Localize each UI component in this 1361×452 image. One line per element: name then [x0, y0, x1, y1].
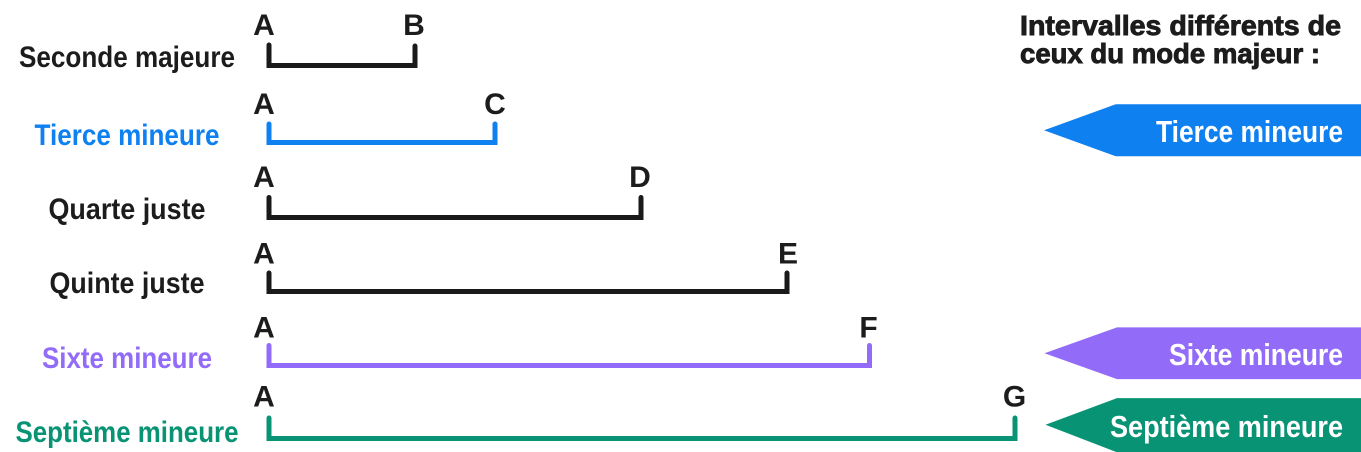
svg-text:Septième mineure: Septième mineure: [1110, 409, 1343, 444]
svg-text:E: E: [778, 238, 798, 271]
svg-text:Sixte mineure: Sixte mineure: [42, 342, 212, 375]
banner arrow Tierce mineure blue: [1044, 104, 1361, 156]
bracket A-E black: [269, 273, 787, 292]
note letter B row1: [403, 9, 425, 42]
svg-text:Septième mineure: Septième mineure: [16, 416, 239, 449]
svg-text:A: A: [253, 238, 275, 271]
svg-text:Quinte juste: Quinte juste: [50, 267, 205, 300]
svg-text:Tierce mineure: Tierce mineure: [35, 119, 220, 152]
note letter A row1: [253, 9, 275, 42]
banner arrow Sixte mineure purple: [1045, 327, 1361, 379]
note letter D row3: [629, 161, 651, 194]
bracket A-F purple: [269, 346, 870, 366]
row label Sixte mineure: [42, 342, 212, 375]
svg-text:Sixte mineure: Sixte mineure: [1169, 337, 1343, 372]
svg-text:B: B: [403, 9, 425, 42]
svg-text:Quarte juste: Quarte juste: [49, 193, 206, 226]
svg-text:A: A: [253, 381, 275, 414]
banner arrow Septième mineure green: [1046, 398, 1361, 452]
row label Seconde majeure: [19, 41, 235, 74]
bracket A-D black: [269, 198, 641, 218]
row label Septième mineure: [16, 416, 239, 449]
row label Quarte juste: [49, 193, 206, 226]
bracket A-C blue: [269, 124, 495, 143]
svg-text:Intervalles différents de: Intervalles différents de: [1020, 10, 1341, 41]
note letter A row2: [253, 88, 275, 121]
note letter A row4: [253, 238, 275, 271]
svg-text:C: C: [484, 88, 506, 121]
svg-text:ceux du mode majeur :: ceux du mode majeur :: [1020, 38, 1320, 69]
svg-text:A: A: [253, 161, 275, 194]
svg-text:Seconde majeure: Seconde majeure: [19, 41, 235, 74]
svg-text:A: A: [253, 88, 275, 121]
note letter F row5: [859, 312, 877, 345]
svg-text:A: A: [253, 312, 275, 345]
svg-text:A: A: [253, 9, 275, 42]
bracket A-B black: [269, 45, 415, 66]
bracket A-G green: [269, 418, 1015, 439]
note letter E row4: [778, 238, 798, 271]
svg-text:D: D: [629, 161, 651, 194]
row label Tierce mineure: [35, 119, 220, 152]
svg-text:F: F: [859, 312, 877, 345]
note letter A row5: [253, 312, 275, 345]
svg-text:Tierce mineure: Tierce mineure: [1156, 114, 1343, 149]
row label Quinte juste: [50, 267, 205, 300]
note letter G row6: [1003, 381, 1026, 414]
heading Intervalles différents de ceux du mode majeur :: [1020, 10, 1341, 69]
note letter C row2: [484, 88, 506, 121]
note letter A row6: [253, 381, 275, 414]
svg-text:G: G: [1003, 381, 1026, 414]
note letter A row3: [253, 161, 275, 194]
